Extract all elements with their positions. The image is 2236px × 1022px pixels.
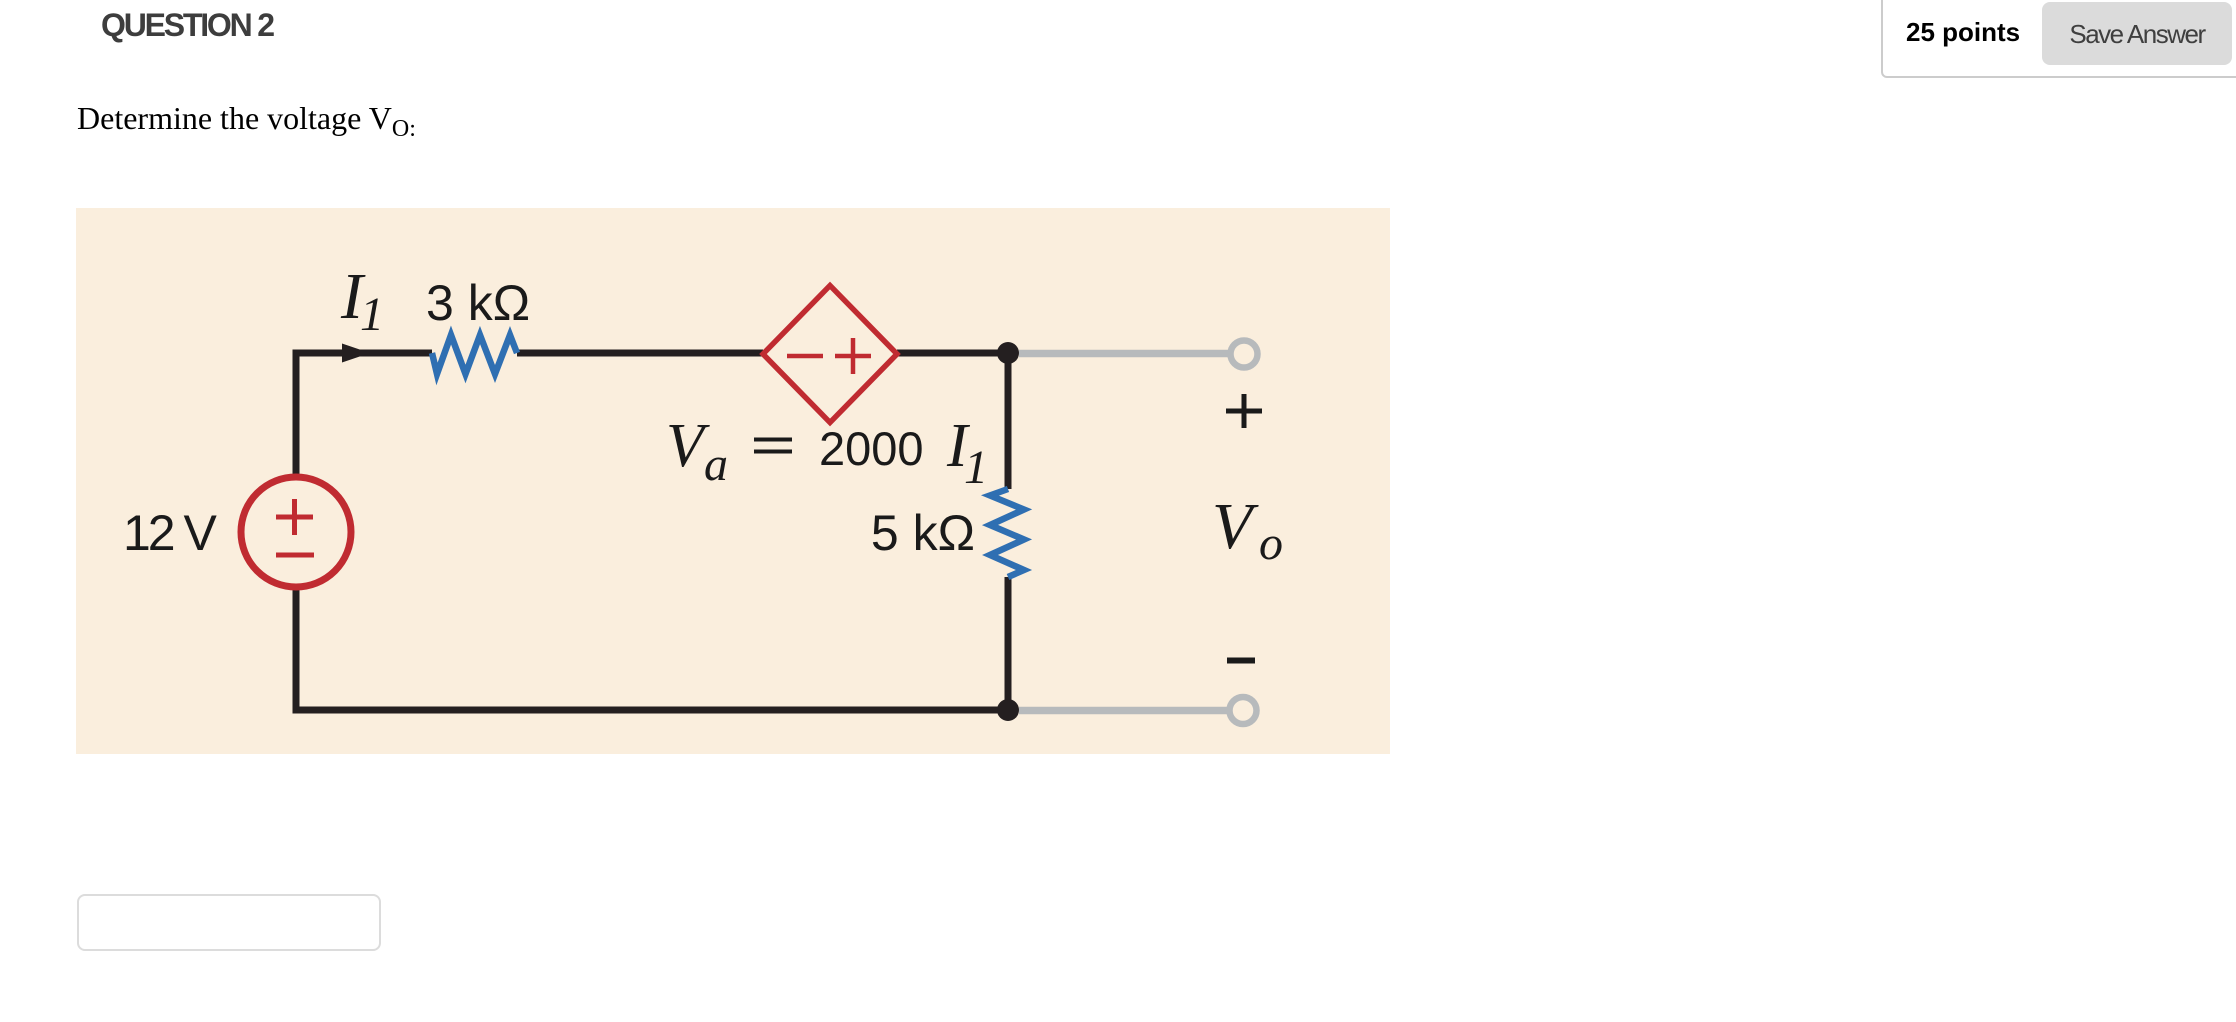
node B junction dot xyxy=(997,699,1019,721)
resistor 3k xyxy=(432,335,517,374)
points label xyxy=(1906,17,2020,47)
label Va equation xyxy=(666,412,988,494)
gray lead bottom xyxy=(1019,707,1230,715)
question header title xyxy=(101,7,273,43)
save answer button xyxy=(2042,2,2232,65)
svg-text:V: V xyxy=(1212,490,1259,563)
label minus terminal xyxy=(1227,658,1255,664)
resistor 5k xyxy=(990,489,1024,577)
terminal top xyxy=(1231,341,1258,368)
wire bottom loop xyxy=(296,577,1008,710)
svg-text:1: 1 xyxy=(360,288,384,341)
label plus terminal xyxy=(1226,394,1262,428)
terminal bottom xyxy=(1230,697,1257,724)
gray lead top xyxy=(1019,350,1231,358)
wire diamond to node A xyxy=(897,353,1008,489)
dependent source Va xyxy=(763,286,897,423)
svg-text:1: 1 xyxy=(964,441,988,494)
circuit figure panel xyxy=(76,208,1390,754)
node A junction dot xyxy=(997,342,1019,364)
points panel border xyxy=(1881,0,2236,78)
current arrow I1 xyxy=(342,344,370,363)
question prompt text xyxy=(77,99,416,141)
voltage source 12V xyxy=(241,477,351,587)
svg-text:5 kΩ: 5 kΩ xyxy=(871,505,975,561)
label 12 V xyxy=(123,505,218,561)
wire top middle xyxy=(517,350,763,357)
svg-text:3 kΩ: 3 kΩ xyxy=(426,275,530,331)
label I1 xyxy=(340,260,384,341)
label Vo xyxy=(1212,490,1283,570)
svg-text:o: o xyxy=(1259,517,1283,570)
label 5 kOhm xyxy=(871,505,975,561)
label 3 kOhm xyxy=(426,275,530,331)
answer input box xyxy=(77,894,381,951)
wire top-left corner and left side xyxy=(296,353,432,477)
svg-text:2000: 2000 xyxy=(819,422,924,475)
svg-text:a: a xyxy=(704,438,728,491)
svg-text:12 V: 12 V xyxy=(123,505,218,561)
